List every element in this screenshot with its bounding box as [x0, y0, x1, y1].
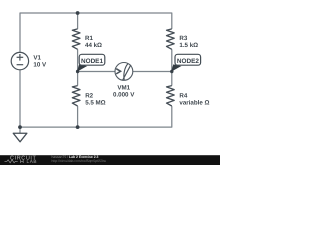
svg-text:44 kΩ: 44 kΩ: [85, 42, 102, 49]
svg-text:NODE2: NODE2: [177, 58, 199, 65]
svg-text:NODE1: NODE1: [81, 58, 103, 65]
svg-text:LAB: LAB: [27, 159, 38, 164]
svg-text:R4: R4: [179, 92, 187, 99]
svg-text:R2: R2: [85, 92, 93, 99]
svg-text:10 V: 10 V: [33, 62, 47, 69]
svg-text:V1: V1: [33, 54, 41, 61]
svg-text:5.5 MΩ: 5.5 MΩ: [85, 99, 105, 106]
svg-text:http://circuitlab.com/cwf5qm5p: http://circuitlab.com/cwf5qm5p653ra: [52, 159, 106, 163]
svg-text:variable Ω: variable Ω: [179, 99, 209, 106]
svg-text:1.5 kΩ: 1.5 kΩ: [179, 42, 198, 49]
svg-text:0.000 V: 0.000 V: [113, 91, 135, 98]
svg-text:R3: R3: [179, 35, 187, 42]
svg-text:R1: R1: [85, 35, 93, 42]
